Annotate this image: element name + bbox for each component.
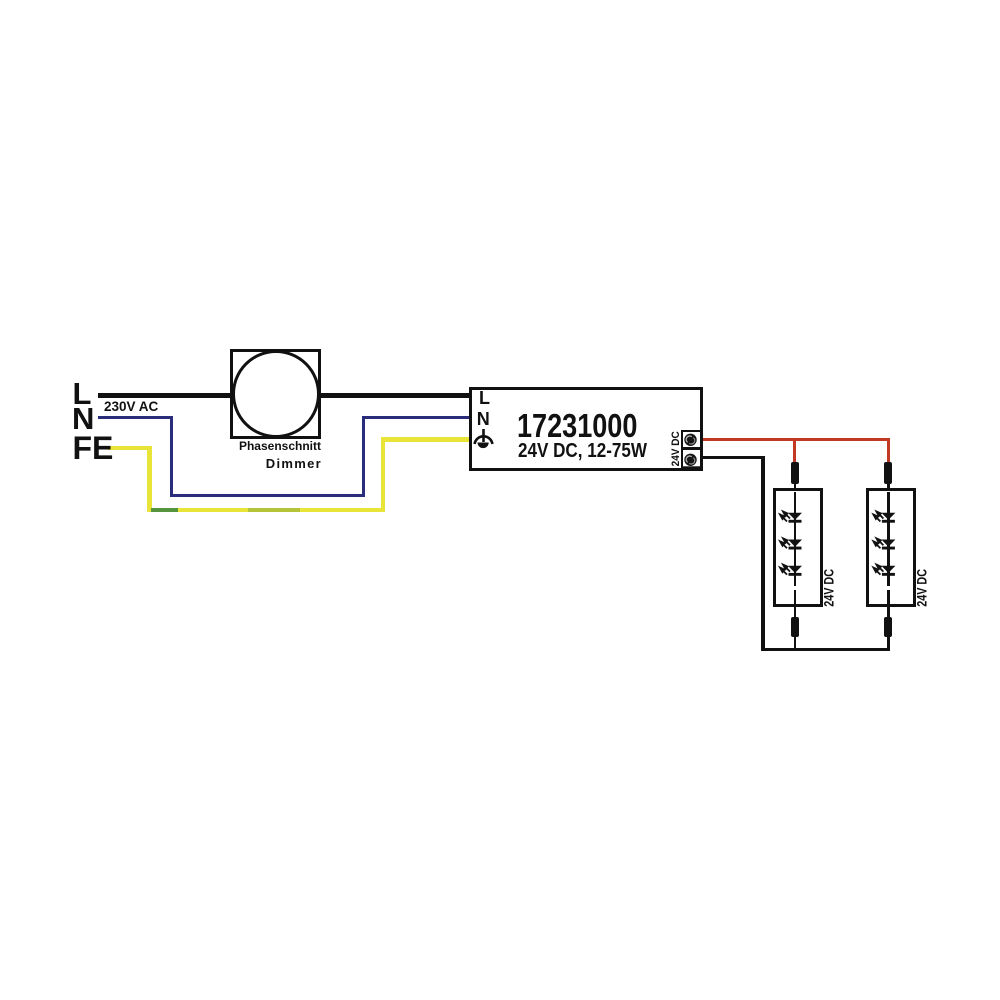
svg-text:24V DC: 24V DC [670, 431, 682, 466]
svg-text:24V DC: 24V DC [822, 569, 837, 607]
svg-text:24V DC: 24V DC [915, 569, 930, 607]
